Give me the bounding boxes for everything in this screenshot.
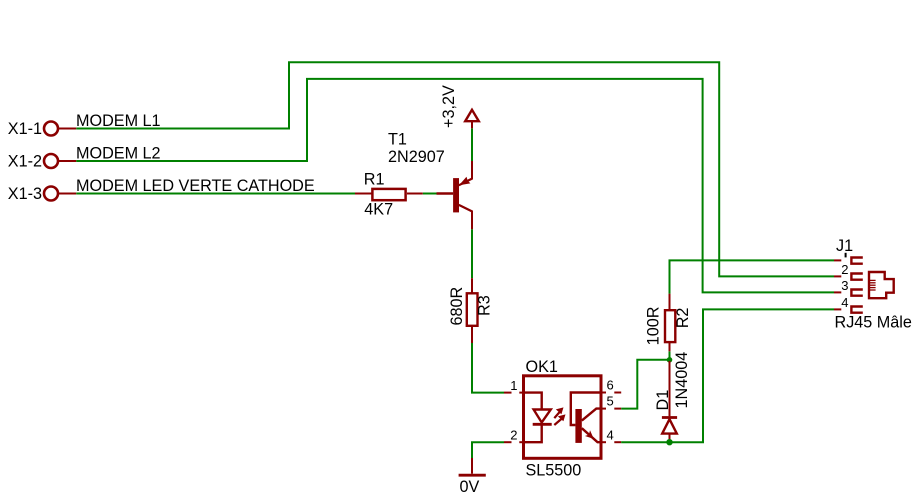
J1 pin 3 bbox=[834, 278, 863, 296]
optocoupler OK1 SL5500 bbox=[524, 358, 602, 480]
ground 0V bbox=[459, 458, 486, 496]
wire net MODEM LED VERTE CATHODE : X1-3 to R1 bbox=[76, 193, 355, 195]
wire R1 to T1 base bbox=[423, 193, 437, 195]
connector pin X1-3 bbox=[8, 185, 77, 203]
node junction R2/D1/pin5 bbox=[667, 357, 673, 363]
svg-text:+3,2V: +3,2V bbox=[440, 85, 458, 128]
J1 pin 1 bbox=[834, 253, 863, 264]
svg-text:2N2907: 2N2907 bbox=[388, 148, 445, 166]
wire OK1 pin5 to R2/D1 node bbox=[621, 360, 669, 409]
wire net MODEM L2 : X1-2 to J1 pin3 bbox=[76, 79, 834, 293]
wire T1 collector to R3 bbox=[471, 229, 473, 278]
wire R2 top to J1 pin1 bbox=[670, 260, 835, 293]
connector pin X1-2 bbox=[8, 153, 77, 171]
diode D1 1N4004 bbox=[654, 352, 691, 442]
svg-text:OK1: OK1 bbox=[526, 358, 558, 376]
svg-text:4: 4 bbox=[607, 427, 614, 442]
OK1 pin 1 bbox=[504, 378, 524, 393]
svg-text:6: 6 bbox=[607, 378, 614, 393]
resistor R2 bbox=[645, 294, 692, 352]
supply symbol +3,2V bbox=[440, 85, 479, 128]
svg-text:X1-2: X1-2 bbox=[8, 153, 42, 171]
wire net MODEM L1 : X1-1 to J1 pin2 bbox=[76, 62, 834, 276]
svg-text:MODEM LED VERTE CATHODE: MODEM LED VERTE CATHODE bbox=[76, 177, 315, 195]
wire OK1 pin2 to ground bbox=[472, 442, 504, 458]
svg-text:3: 3 bbox=[841, 278, 848, 293]
J1 pin 4 bbox=[834, 295, 863, 313]
svg-text:SL5500: SL5500 bbox=[526, 462, 582, 480]
svg-text:T1: T1 bbox=[388, 131, 407, 149]
svg-text:D1: D1 bbox=[654, 390, 672, 411]
svg-text:X1-3: X1-3 bbox=[8, 185, 42, 203]
svg-text:X1-1: X1-1 bbox=[8, 120, 42, 138]
svg-text:R3: R3 bbox=[476, 295, 494, 316]
OK1 pin 4 bbox=[601, 427, 621, 442]
OK1 pin 6 bbox=[601, 378, 621, 393]
svg-text:1N4004: 1N4004 bbox=[673, 352, 691, 409]
resistor R1 bbox=[355, 171, 423, 219]
connector pin X1-1 bbox=[8, 120, 77, 138]
svg-text:MODEM L2: MODEM L2 bbox=[76, 145, 161, 163]
OK1 pin 5 bbox=[601, 393, 621, 408]
svg-text:680R: 680R bbox=[448, 287, 466, 326]
transistor Q T1 2N2907 bbox=[388, 131, 472, 230]
resistor R3 bbox=[448, 278, 494, 343]
RJ45 jack symbol bbox=[869, 272, 894, 298]
node junction D1 anode / pin4 wire bbox=[666, 439, 672, 445]
wire R2 bottom to node bbox=[669, 351, 671, 360]
svg-text:R1: R1 bbox=[364, 171, 385, 189]
svg-text:1: 1 bbox=[510, 378, 517, 393]
svg-text:R2: R2 bbox=[674, 308, 692, 329]
OK1 light arrow 1 bbox=[554, 407, 563, 418]
OK1 internal LED bbox=[524, 393, 552, 443]
svg-text:MODEM L1: MODEM L1 bbox=[76, 112, 161, 130]
svg-text:2: 2 bbox=[510, 427, 517, 442]
svg-text:5: 5 bbox=[607, 393, 614, 408]
OK1 pin 2 bbox=[504, 427, 524, 442]
wire R3 to OK1 pin1 bbox=[472, 343, 504, 393]
OK1 light arrow 2 bbox=[554, 414, 565, 425]
svg-text:100R: 100R bbox=[645, 307, 663, 346]
svg-text:2: 2 bbox=[841, 262, 848, 277]
wire OK1 pin4 / D1 anode to J1 pin4 bbox=[621, 309, 834, 442]
svg-text:0V: 0V bbox=[460, 478, 480, 496]
J1 pin 2 bbox=[834, 262, 863, 280]
svg-text:J1: J1 bbox=[836, 237, 853, 255]
svg-text:4K7: 4K7 bbox=[364, 201, 393, 219]
OK1 internal phototransistor bbox=[571, 393, 601, 443]
wire T1 emitter to +3,2V bbox=[471, 128, 473, 161]
svg-text:4: 4 bbox=[841, 295, 848, 310]
svg-text:RJ45 Mâle: RJ45 Mâle bbox=[835, 314, 912, 332]
